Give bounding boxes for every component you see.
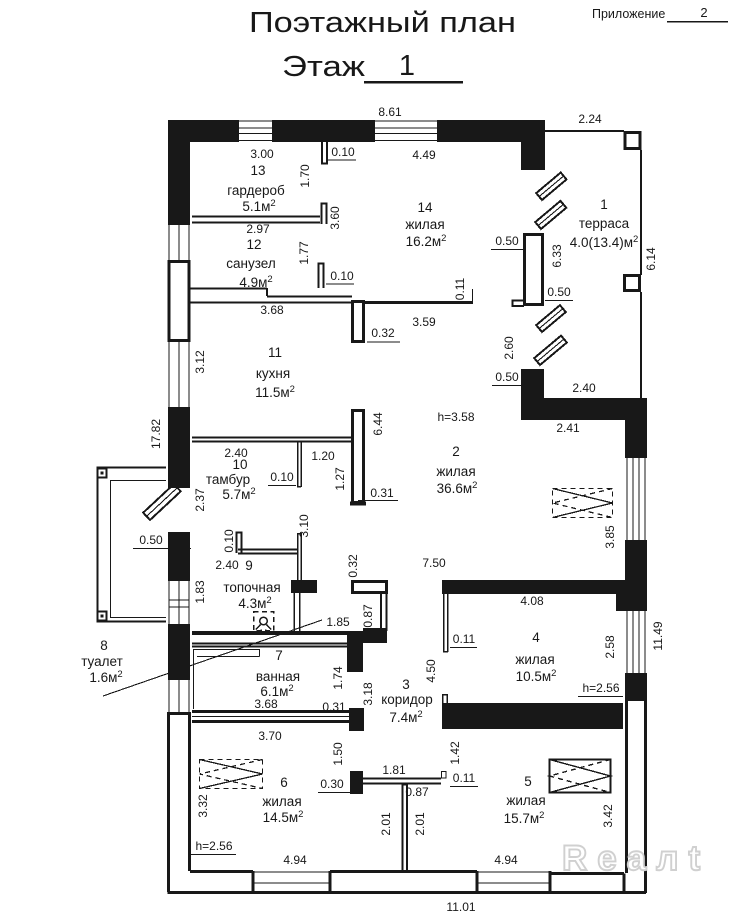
wall: left hollow pier	[169, 262, 189, 341]
terrace: right edge lower	[640, 292, 642, 398]
svg-text:5.1м2: 5.1м2	[242, 198, 275, 214]
svg-text:санузел: санузел	[226, 256, 275, 271]
svg-text:0.10: 0.10	[222, 529, 236, 553]
wall: tick 0.11 at kitchen wall end	[472, 289, 474, 302]
dim underline 0.31 at stub	[358, 500, 398, 502]
wall: left exterior below door	[168, 532, 190, 581]
wall: left exterior mid segment	[168, 407, 190, 488]
window: right wall window upper	[627, 458, 645, 540]
wall: stub 0.10 below top wall (rooms 13/14)	[322, 142, 327, 164]
svg-text:тамбур: тамбур	[206, 472, 250, 487]
title: Этаж 1	[282, 50, 463, 84]
svg-text:4.94: 4.94	[283, 853, 307, 867]
svg-text:2.01: 2.01	[379, 812, 393, 836]
svg-text:0.87: 0.87	[361, 604, 375, 628]
window: bottom wall window 2	[477, 872, 550, 883]
svg-text:0.87: 0.87	[405, 785, 429, 799]
svg-text:14: 14	[417, 200, 433, 215]
svg-text:3.59: 3.59	[412, 315, 436, 329]
svg-text:h=2.56: h=2.56	[195, 839, 232, 853]
svg-text:кухня: кухня	[256, 366, 290, 381]
dim underline 0.11 wall end	[450, 786, 478, 788]
svg-text:1.77: 1.77	[297, 241, 311, 265]
terrace: right edge upper	[640, 150, 642, 275]
svg-text:3.00: 3.00	[250, 147, 274, 161]
svg-text:0.31: 0.31	[322, 700, 346, 714]
wall: right exterior below window	[625, 673, 647, 701]
svg-text:3.85: 3.85	[603, 525, 617, 549]
window symbol: room 2	[553, 489, 613, 518]
wall: room2/room4 dividing wall 7.50	[442, 580, 616, 594]
window: bay diagonal window 3	[536, 305, 566, 332]
wall: bathroom bottom double wall	[192, 712, 349, 722]
wall: sanuzel bottom wall with step	[190, 288, 352, 303]
porch: corner post bottom-left	[98, 612, 107, 621]
svg-text:10.5м2: 10.5м2	[516, 668, 557, 684]
svg-text:3: 3	[402, 677, 410, 692]
wall: corridor top black tee	[347, 635, 363, 672]
wall: bathroom inner lining	[194, 650, 260, 710]
wall: right exterior upper black	[625, 398, 647, 458]
svg-text:2.58: 2.58	[603, 635, 617, 659]
svg-text:15.7м2: 15.7м2	[504, 810, 545, 826]
svg-text:h=2.56: h=2.56	[582, 681, 619, 695]
wall: wardrobe bottom wall 2.97	[192, 217, 320, 223]
wall: thick bottom cap of stub	[350, 502, 366, 506]
window symbol: room 6	[200, 760, 263, 789]
svg-text:4: 4	[532, 630, 540, 645]
wall: hollow stub 0.32 right	[353, 582, 387, 593]
wall: right exterior pier 3.85	[625, 540, 647, 611]
wall: tambour bottom wall left jamb	[237, 533, 242, 554]
window: bay diagonal window 1	[536, 173, 566, 200]
dim underline 0.50 bay lower	[492, 385, 530, 387]
wall: hollow stub 6.44	[353, 411, 364, 503]
svg-text:11.01: 11.01	[446, 900, 475, 914]
svg-text:14.5м2: 14.5м2	[263, 809, 304, 825]
svg-text:2.01: 2.01	[413, 812, 427, 836]
window: left wall window 2	[169, 342, 189, 407]
svg-text:жилая: жилая	[262, 794, 301, 809]
porch: inner outline	[111, 481, 167, 618]
svg-text:0.31: 0.31	[370, 486, 394, 500]
svg-text:жилая: жилая	[515, 652, 554, 667]
dim underline h=2.56 room6	[191, 854, 236, 856]
svg-text:6.44: 6.44	[371, 412, 385, 436]
svg-text:2: 2	[700, 5, 707, 20]
svg-text:Приложение: Приложение	[592, 7, 665, 21]
svg-text:0.32: 0.32	[346, 554, 360, 578]
svg-text:жилая: жилая	[405, 217, 444, 232]
svg-text:9: 9	[245, 558, 253, 573]
wall: room4/room5 dividing wall black	[442, 703, 623, 729]
wall: bathroom top wall	[192, 644, 347, 647]
wall: corner block at bay top	[521, 142, 545, 170]
wall: tick 0.11 at wall end	[442, 772, 447, 779]
svg-text:12: 12	[246, 237, 261, 252]
svg-text:6.33: 6.33	[550, 244, 564, 268]
svg-text:1.74: 1.74	[331, 666, 345, 690]
svg-text:0.50: 0.50	[139, 533, 163, 547]
svg-text:коридор: коридор	[381, 692, 433, 707]
svg-text:1: 1	[399, 50, 415, 82]
wall: corridor/room4 wall 0.11	[443, 594, 448, 652]
porch: corner post top-left	[98, 469, 107, 478]
terrace: top edge line	[545, 130, 624, 132]
svg-text:h=3.58: h=3.58	[437, 410, 474, 424]
dim underline 0.32	[367, 341, 400, 343]
wall: wardrobe wall end jamb	[322, 204, 327, 225]
wall: bottom hollow wall mid part	[330, 870, 477, 873]
wall: top exterior segment 1	[168, 120, 239, 142]
svg-text:1: 1	[600, 197, 608, 212]
svg-text:11.49: 11.49	[651, 621, 665, 650]
wall: room5/room6 partition	[402, 784, 407, 871]
wall: left hollow bottom segment	[169, 712, 190, 892]
svg-text:4.49: 4.49	[412, 148, 436, 162]
svg-text:5.7м2: 5.7м2	[222, 486, 255, 502]
svg-text:1.81: 1.81	[382, 763, 406, 777]
svg-text:13: 13	[250, 163, 265, 178]
svg-text:0.10: 0.10	[270, 470, 294, 484]
svg-text:8.61: 8.61	[378, 105, 402, 119]
svg-text:1.20: 1.20	[311, 449, 335, 463]
dim underline 0.30 room6	[318, 792, 350, 794]
wall: bay hollow pier	[525, 235, 543, 305]
wall: top exterior segment 3	[437, 120, 545, 142]
wall: niche wall 0.87	[381, 594, 387, 631]
wall: stub between sanuzel and room 14	[319, 264, 324, 289]
wall: jamb block left of right wall window	[616, 580, 625, 611]
svg-text:3.60: 3.60	[328, 206, 342, 230]
svg-text:2: 2	[452, 444, 460, 459]
svg-text:4.50: 4.50	[424, 659, 438, 683]
svg-text:1.83: 1.83	[193, 580, 207, 604]
svg-text:2.60: 2.60	[502, 336, 516, 360]
svg-text:4.9м2: 4.9м2	[239, 274, 272, 290]
svg-text:0.50: 0.50	[495, 370, 519, 384]
window: left wall window 3	[169, 581, 189, 624]
svg-text:1.27: 1.27	[333, 467, 347, 491]
svg-text:6.1м2: 6.1м2	[260, 683, 293, 699]
title: Поэтажный план	[249, 7, 516, 39]
svg-text:0.11: 0.11	[453, 277, 467, 300]
wall: bottom hollow wall right part	[550, 871, 646, 893]
svg-text:2.40: 2.40	[215, 558, 239, 572]
svg-text:1.85: 1.85	[326, 615, 350, 629]
dim underline 0.50 bay upper	[491, 249, 526, 251]
window symbol: room 5	[550, 760, 611, 793]
svg-text:5: 5	[524, 774, 532, 789]
svg-text:11.5м2: 11.5м2	[255, 384, 295, 400]
wall: top exterior segment 2	[272, 120, 375, 142]
dim underline 0.10 sanuzel	[326, 283, 354, 285]
svg-text:терраса: терраса	[579, 216, 630, 231]
svg-text:10: 10	[232, 457, 247, 472]
wall: below chimney block	[294, 593, 300, 631]
wall: corridor/room4 jamb above black wall	[443, 695, 448, 704]
wall: kitchen bottom wall 2.40/1.20	[192, 438, 352, 442]
svg-text:4.0(13.4)м2: 4.0(13.4)м2	[570, 234, 639, 250]
svg-text:0.10: 0.10	[330, 269, 354, 283]
wall: wall 1.81 corridor/room5	[363, 779, 441, 784]
svg-text:6: 6	[280, 775, 288, 790]
leader line: to toilet label	[103, 620, 322, 696]
svg-text:3.10: 3.10	[297, 514, 311, 538]
terrace: corner post top	[625, 133, 640, 149]
svg-text:Этаж: Этаж	[282, 51, 366, 83]
svg-text:2.97: 2.97	[246, 222, 270, 236]
window: top wall window 2	[375, 121, 437, 141]
svg-text:6.14: 6.14	[644, 247, 658, 271]
wall: left exterior segment 4	[168, 624, 190, 680]
svg-text:17.82: 17.82	[149, 419, 163, 449]
window: bay diagonal window 4	[534, 336, 567, 365]
svg-text:туалет: туалет	[81, 654, 123, 669]
wall: bay bottom corner and south wall of terrace	[521, 369, 647, 420]
svg-text:гардероб: гардероб	[227, 183, 285, 198]
svg-text:7: 7	[275, 648, 283, 663]
svg-text:1.50: 1.50	[331, 742, 345, 766]
svg-text:3.32: 3.32	[196, 794, 210, 818]
svg-text:Поэтажный план: Поэтажный план	[249, 7, 516, 39]
svg-text:2.40: 2.40	[572, 381, 596, 395]
window: top wall window 1	[239, 121, 272, 141]
window: left wall window 4	[169, 680, 189, 712]
svg-text:4.3м2: 4.3м2	[238, 595, 271, 611]
window: left wall window 1	[169, 225, 189, 260]
svg-text:4.94: 4.94	[494, 853, 518, 867]
door: tambour entrance leaf at 45 deg	[143, 484, 181, 520]
terrace: post middle	[625, 276, 640, 291]
svg-text:3.68: 3.68	[254, 697, 278, 711]
svg-text:0.50: 0.50	[547, 285, 571, 299]
wall: kitchen top wall 3.59	[364, 301, 473, 304]
wall: stub 0.30 black	[350, 771, 363, 794]
svg-text:0.10: 0.10	[331, 145, 355, 159]
svg-text:1.42: 1.42	[448, 741, 462, 765]
wall: tambour bottom wall 2.40	[238, 550, 297, 554]
dim underline 0.10 tambour	[268, 485, 296, 487]
dim underline 0.50 left wall	[133, 548, 191, 550]
svg-text:7.50: 7.50	[422, 556, 446, 570]
svg-text:0.30: 0.30	[320, 777, 344, 791]
svg-text:4.08: 4.08	[520, 594, 544, 608]
wall: boiler-room bottom wall	[192, 631, 364, 635]
dim underline 0.11 corridor	[450, 647, 477, 649]
svg-text:жилая: жилая	[506, 793, 545, 808]
window: right wall window	[627, 611, 645, 673]
svg-text:1.70: 1.70	[298, 164, 312, 188]
svg-text:0.11: 0.11	[453, 771, 476, 785]
svg-text:3.70: 3.70	[258, 729, 282, 743]
wall: tambour right wall upper	[297, 441, 301, 487]
svg-text:2.24: 2.24	[578, 112, 602, 126]
wall: bottom hollow wall left part	[168, 872, 647, 893]
symbol: boiler in boiler-room	[254, 612, 274, 633]
annotation: Приложение 2	[592, 5, 728, 23]
svg-text:3.68: 3.68	[260, 303, 284, 317]
porch: outer outline	[98, 468, 167, 622]
wall: hollow stub 0.32 kitchen top	[353, 302, 364, 342]
dim underline 0.10 top	[327, 159, 356, 161]
svg-text:2.37: 2.37	[193, 488, 207, 512]
svg-text:11: 11	[268, 345, 282, 360]
dim underline 0.50 bay mid	[545, 300, 573, 302]
wall: black jamb 0.31 bathroom right	[349, 708, 364, 731]
wall: chimney block black	[291, 580, 317, 593]
svg-text:0.11: 0.11	[453, 632, 476, 646]
wall: right hollow bottom segment	[627, 701, 646, 873]
dim underline h=2.56 room4	[578, 696, 623, 698]
svg-text:7.4м2: 7.4м2	[389, 709, 422, 725]
svg-text:3.18: 3.18	[361, 682, 375, 706]
svg-text:0.50: 0.50	[495, 234, 519, 248]
svg-text:8: 8	[100, 638, 108, 653]
svg-text:16.2м2: 16.2м2	[406, 233, 447, 249]
svg-text:2.41: 2.41	[556, 421, 580, 435]
svg-text:топочная: топочная	[223, 580, 280, 595]
svg-text:ванная: ванная	[256, 669, 300, 684]
window: bottom wall window 1	[253, 872, 330, 883]
wall: left exterior top segment	[168, 142, 190, 225]
svg-text:36.6м2: 36.6м2	[437, 480, 478, 496]
svg-text:0.32: 0.32	[371, 326, 395, 340]
window: bay diagonal window 2	[535, 201, 566, 229]
wall: boiler-room right wall upper	[297, 533, 301, 581]
svg-text:жилая: жилая	[436, 464, 475, 479]
svg-text:1.6м2: 1.6м2	[89, 669, 122, 685]
svg-text:Reaлt: Reaлt	[562, 839, 710, 878]
svg-text:3.42: 3.42	[601, 804, 615, 828]
wall: small notch left of pier bottom	[513, 301, 525, 307]
svg-text:3.12: 3.12	[193, 350, 207, 374]
